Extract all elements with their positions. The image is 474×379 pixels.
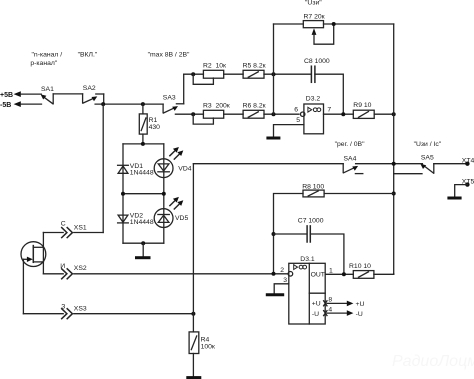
- capacitor C7 1000: [274, 218, 324, 242]
- wire D3.1 pin3 to ground: [266, 284, 289, 295]
- switch SA5: [420, 155, 434, 173]
- wire XS2 row to op-amp input: [74, 273, 288, 275]
- svg-text:R3 200к: R3 200к: [203, 103, 230, 110]
- wire VD block left column: [122, 144, 124, 243]
- wire VD block top: [123, 143, 164, 145]
- label "Uзи" top: [305, 0, 322, 7]
- svg-text:3: 3: [283, 277, 287, 284]
- svg-text:-U: -U: [312, 311, 319, 318]
- wire VD block middle: [123, 193, 164, 195]
- wire XS1 row left part: [43, 232, 63, 234]
- svg-text:р-канал": р-канал": [30, 60, 57, 67]
- wire +5B to SA1: [21, 93, 42, 95]
- wire XS3 row left part: [23, 313, 63, 315]
- svg-text:R10 10: R10 10: [349, 263, 371, 270]
- svg-text:"max 8В / 2В": "max 8В / 2В": [148, 52, 190, 59]
- wire C7 right to pin1 node: [310, 234, 344, 274]
- LED VD4: [154, 147, 192, 178]
- wire R3 to R6: [224, 113, 243, 115]
- junction dot VD top: [141, 142, 145, 146]
- watermark: [392, 353, 474, 370]
- svg-text:XS3: XS3: [74, 306, 87, 313]
- wire R2 to R5: [224, 73, 243, 75]
- wire XS3 row to R4 node: [74, 313, 194, 315]
- svg-text:"Uзи / Ic": "Uзи / Ic": [414, 141, 442, 148]
- wire R8 left + feedback vertical: [274, 194, 304, 274]
- svg-text:-5В: -5В: [0, 102, 11, 109]
- svg-text:"Uзи": "Uзи": [305, 0, 322, 7]
- wire D3.1 pin1 out: [325, 273, 353, 275]
- wire middle vertical down to XS3 row: [192, 164, 194, 314]
- svg-text:1N4448: 1N4448: [130, 170, 154, 177]
- junction dot pin1/C7: [342, 272, 346, 276]
- wire left vertical (top loop to divider): [273, 24, 275, 114]
- wire SA4 to SA5: [356, 163, 423, 165]
- wire R7 to right vertical: [324, 23, 394, 25]
- svg-text:8: 8: [328, 297, 332, 304]
- wire XS1 row right part: [74, 232, 103, 234]
- label "Uзи / Ic": [414, 141, 442, 148]
- resistor R9 10 (variable): [353, 102, 374, 118]
- svg-text:R8 100: R8 100: [302, 184, 324, 191]
- wire stub to SA5 lower contact: [394, 173, 422, 175]
- wire SA4 row from middle vertical: [193, 163, 343, 165]
- wire SA3 upper throw riser to R2 row: [183, 74, 185, 104]
- svg-text:VD4: VD4: [178, 165, 191, 172]
- svg-text:"рег. / 0В": "рег. / 0В": [335, 141, 365, 148]
- svg-text:XS2: XS2: [74, 265, 87, 272]
- junction dot R2 left: [191, 72, 195, 76]
- wire R8 right to right vertical: [324, 193, 394, 195]
- svg-text:SA2: SA2: [83, 85, 96, 92]
- svg-text:D3.2: D3.2: [306, 96, 321, 103]
- diode VD2 1N4448: [118, 213, 154, 227]
- pin 8 +U supply: [324, 297, 365, 308]
- junction dot mid right: [162, 192, 166, 196]
- switch SA4: [343, 156, 363, 174]
- pin 4 -U supply: [324, 307, 363, 318]
- resistor R8 100 (variable): [302, 184, 324, 197]
- junction dot pin7/C8: [341, 112, 345, 116]
- svg-text:R1: R1: [149, 117, 158, 124]
- junction dot VD bottom: [141, 241, 145, 245]
- wire VD block bottom: [123, 242, 164, 244]
- wire SA3 lower throw to R3 row: [175, 113, 203, 115]
- connector XS3: [61, 304, 87, 319]
- node XT5 terminal with ground: [447, 178, 474, 198]
- wire top loop left: [274, 23, 304, 25]
- wire R9 to right vertical: [374, 113, 394, 115]
- switch SA1: [41, 86, 54, 104]
- svg-text:"ВКЛ.": "ВКЛ.": [78, 52, 98, 59]
- label "n-канал / p-канал": [30, 52, 62, 67]
- junction dot pin2 node: [272, 272, 276, 276]
- LED VD5: [154, 197, 188, 228]
- svg-text:-U: -U: [356, 311, 363, 318]
- svg-text:2: 2: [280, 267, 284, 274]
- svg-text:С: С: [61, 221, 66, 228]
- resistor R4 100k (variable): [189, 314, 215, 354]
- wire D3.2 pin7 out: [324, 113, 354, 115]
- wire R5 to C8: [264, 73, 311, 75]
- label "рег. / 0В": [335, 141, 365, 148]
- svg-text:SA3: SA3: [163, 94, 176, 101]
- svg-text:VD5: VD5: [175, 215, 188, 222]
- wire main node after SA2: [95, 103, 163, 105]
- junction dot row2 / left vertical: [272, 112, 276, 116]
- node -5B terminal: [0, 101, 21, 109]
- wire XS2 row left part: [43, 273, 63, 275]
- resistor R5 8.2k (variable): [243, 63, 266, 79]
- resistor R3 200k (trimmer): [193, 103, 230, 125]
- connector XS2: [60, 263, 87, 279]
- resistor R6 8.2k (variable): [243, 103, 266, 119]
- svg-text:C7 1000: C7 1000: [298, 218, 324, 225]
- wire VD block right column: [163, 144, 165, 243]
- svg-text:1N4448: 1N4448: [130, 219, 154, 226]
- svg-text:R7 20к: R7 20к: [304, 13, 325, 20]
- junction dot R3 left: [191, 112, 195, 116]
- junction dot R1 top: [141, 102, 145, 106]
- wire -5B stub: [21, 103, 42, 105]
- svg-text:1: 1: [329, 267, 333, 274]
- svg-text:+5В: +5В: [0, 92, 13, 99]
- wire vertical node A down to XS1 row: [102, 104, 104, 232]
- svg-text:РадиоЛоцман: РадиоЛоцман: [392, 353, 474, 370]
- wire R6 to D3.2 pin 6: [264, 113, 299, 115]
- wire C8 right to pin7 node: [315, 74, 343, 114]
- wire SA5 to XT4: [434, 163, 468, 165]
- label "ВКЛ.": [78, 52, 98, 59]
- ground below VD block: [135, 243, 151, 258]
- junction dot SA4 row / right vertical: [392, 162, 396, 166]
- op-amp D3.1: [280, 256, 325, 324]
- svg-text:R9 10: R9 10: [353, 102, 371, 109]
- svg-text:"n-канал /: "n-канал /: [32, 52, 63, 59]
- svg-text:100к: 100к: [201, 344, 215, 351]
- svg-text:5: 5: [296, 117, 300, 124]
- diode VD1 1N4448: [118, 163, 154, 177]
- ground below R4: [186, 354, 201, 378]
- svg-text:R5 8.2к: R5 8.2к: [243, 63, 266, 70]
- svg-text:XS1: XS1: [74, 225, 87, 232]
- svg-text:R2 10к: R2 10к: [203, 63, 226, 70]
- resistor R2 10k (trimmer): [193, 63, 226, 85]
- junction dot R9 right: [392, 112, 396, 116]
- svg-text:C8 1000: C8 1000: [304, 58, 330, 65]
- junction dot node A: [101, 102, 105, 106]
- svg-text:SA1: SA1: [41, 86, 54, 93]
- junction dot R4 top: [191, 312, 195, 316]
- wire R10 right to right vertical: [374, 273, 394, 275]
- svg-text:430: 430: [149, 124, 161, 131]
- wire right vertical: [393, 24, 395, 274]
- junction dot R8 right: [392, 192, 396, 196]
- op-amp D3.2: [294, 96, 331, 134]
- switch SA2: [83, 85, 104, 104]
- svg-text:+U: +U: [312, 301, 321, 308]
- svg-text:+U: +U: [356, 301, 365, 308]
- junction dot R7 wiper: [332, 22, 336, 26]
- resistor R1 430 (variable): [139, 104, 160, 144]
- label "max 8В / 2В": [148, 52, 190, 59]
- capacitor C8 1000: [304, 58, 330, 82]
- wire D3.2 pin5 to ground: [266, 125, 304, 138]
- potentiometer R7 20k: [303, 13, 333, 44]
- junction dot mid left: [121, 192, 125, 196]
- svg-text:R6 8.2к: R6 8.2к: [243, 103, 266, 110]
- switch SA3: [163, 94, 184, 113]
- svg-text:6: 6: [294, 106, 298, 113]
- wire SA1 to SA2: [53, 93, 82, 95]
- svg-text:D3.1: D3.1: [300, 256, 315, 263]
- resistor R10 10 (variable): [349, 263, 374, 278]
- svg-text:OUT: OUT: [311, 271, 325, 278]
- junction dot C7 left: [272, 232, 276, 236]
- transistor VT (field-effect, in circle): [21, 233, 46, 314]
- svg-text:SA5: SA5: [421, 155, 434, 162]
- node +5B terminal: [0, 91, 21, 99]
- junction dot row1 / left vertical: [272, 72, 276, 76]
- connector XS1: [61, 221, 87, 238]
- svg-text:SA4: SA4: [344, 156, 357, 163]
- node XT4 terminal: [462, 157, 474, 166]
- svg-text:7: 7: [327, 106, 331, 113]
